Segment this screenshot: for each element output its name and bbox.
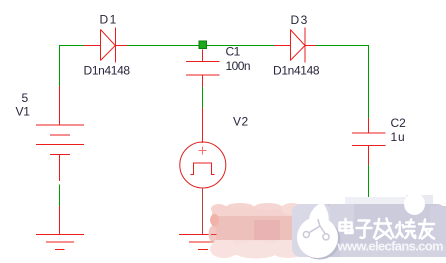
char 友 [419, 220, 434, 239]
svg-text:5: 5 [22, 91, 29, 105]
wire top horizontal D3-to-corner [316, 45, 369, 47]
char 烧 [396, 220, 415, 239]
pulse source V2 [180, 108, 226, 235]
capacitor C1 [186, 50, 220, 88]
svg-text:D1n4148: D1n4148 [84, 64, 131, 78]
ground (middle, under V2) [179, 235, 227, 250]
svg-text:D1n4148: D1n4148 [273, 64, 320, 78]
svg-text:www.elecfans.com: www.elecfans.com [337, 239, 444, 254]
watermark block (lavender, bottom right) [292, 193, 446, 257]
voltage source V1 (battery) [36, 86, 84, 181]
logo leaf/flame [309, 202, 329, 231]
svg-text:C2: C2 [391, 116, 407, 130]
watermark smudge (pink blur cloud, bottom middle) [209, 203, 307, 259]
wire left vertical upper [59, 45, 61, 86]
diode D1 [84, 28, 127, 63]
wire top horizontal D1-to-node [127, 45, 199, 47]
logo circuit traces [303, 219, 329, 240]
wire left vertical lower [59, 185, 61, 207]
ground bar tips showing at smudge edge [210, 235, 217, 243]
wire top horizontal left segment [60, 45, 85, 47]
wire middle vertical [202, 87, 204, 108]
ground (left, under V1) [36, 206, 84, 250]
svg-text:V1: V1 [16, 105, 31, 119]
svg-text:C1: C1 [226, 44, 241, 58]
wire right vertical upper [368, 45, 370, 118]
char 发 [374, 219, 394, 240]
svg-text:1u: 1u [391, 130, 406, 144]
wire top horizontal node-to-D3 [207, 45, 274, 47]
svg-text:D1: D1 [100, 12, 118, 26]
diode D3 [274, 28, 316, 63]
elecfans leaf logo [297, 202, 341, 260]
svg-text:100n: 100n [226, 59, 251, 73]
node A junction square [199, 41, 207, 49]
V2 plus sign [198, 146, 206, 154]
watermark text 电子发烧友 (drawn strokes) [340, 219, 435, 240]
capacitor C2 [352, 118, 386, 165]
char 电 [340, 219, 353, 233]
svg-text:V2: V2 [233, 115, 249, 129]
svg-text:D3: D3 [291, 13, 309, 27]
char 子 [357, 221, 372, 238]
wire right vertical lower [368, 165, 370, 204]
